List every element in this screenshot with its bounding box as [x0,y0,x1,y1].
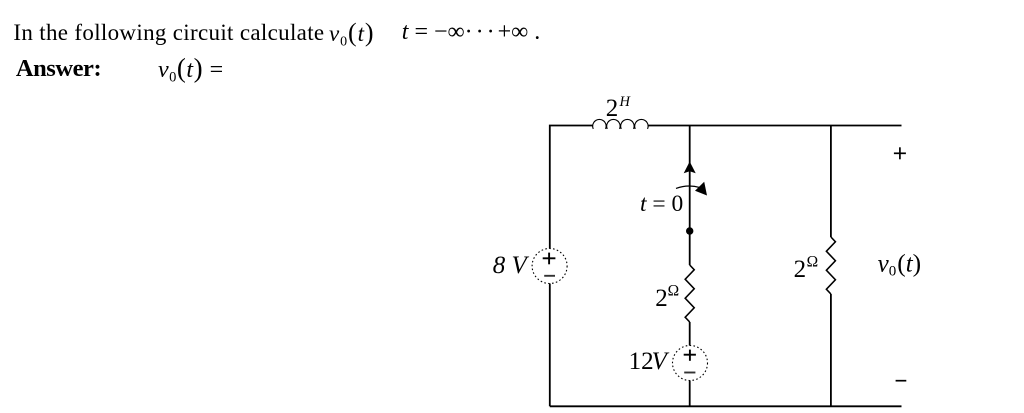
resistor R1 2ohm middle zigzag [685,265,694,322]
wire top-right segment [648,125,902,127]
voltage source V2 12V circle [673,346,708,381]
wire right branch below resistor [830,294,832,406]
problem statement v0(t) [329,21,374,54]
wire middle branch below 12V source [689,381,691,407]
wire bottom [550,405,902,407]
svg-text:t = 0: t = 0 [640,191,683,217]
svg-text:H: H [619,94,632,110]
answer label [16,57,101,82]
problem statement t range [402,20,541,44]
wire left vertical below source [549,284,551,407]
wire right branch above resistor [830,126,832,238]
svg-text:Ω: Ω [668,283,680,300]
inductor L1 2H [593,119,648,128]
svg-text:8 V: 8 V [493,252,530,279]
wire middle branch between resistor and 12V source [689,322,691,346]
problem statement phrase [13,21,324,44]
switch S1 closing arc [676,186,700,188]
svg-text:2: 2 [794,256,807,283]
V2 minus sign [684,372,695,374]
V1 plus sign [543,253,556,265]
wire top-left segment [550,126,593,249]
answer v0(t)= [158,56,224,90]
output terminal plus sign [894,147,906,159]
output terminal minus sign [896,380,907,382]
svg-text:v0(t): v0(t) [878,249,922,280]
voltage source V1 8V circle [532,249,567,284]
svg-text:2: 2 [606,95,619,122]
switch S1 arc arrowhead [695,182,707,196]
svg-text:Ω: Ω [807,254,819,271]
switch S1 up arrowhead [684,162,696,174]
svg-text:2: 2 [655,285,668,312]
svg-text:12V: 12V [629,348,670,375]
wire middle branch upper (switch arm) [689,126,691,266]
V2 plus sign [684,350,696,361]
resistor R2 2ohm right zigzag [826,237,835,294]
node junction dot [686,227,693,234]
V1 minus sign [544,275,555,277]
